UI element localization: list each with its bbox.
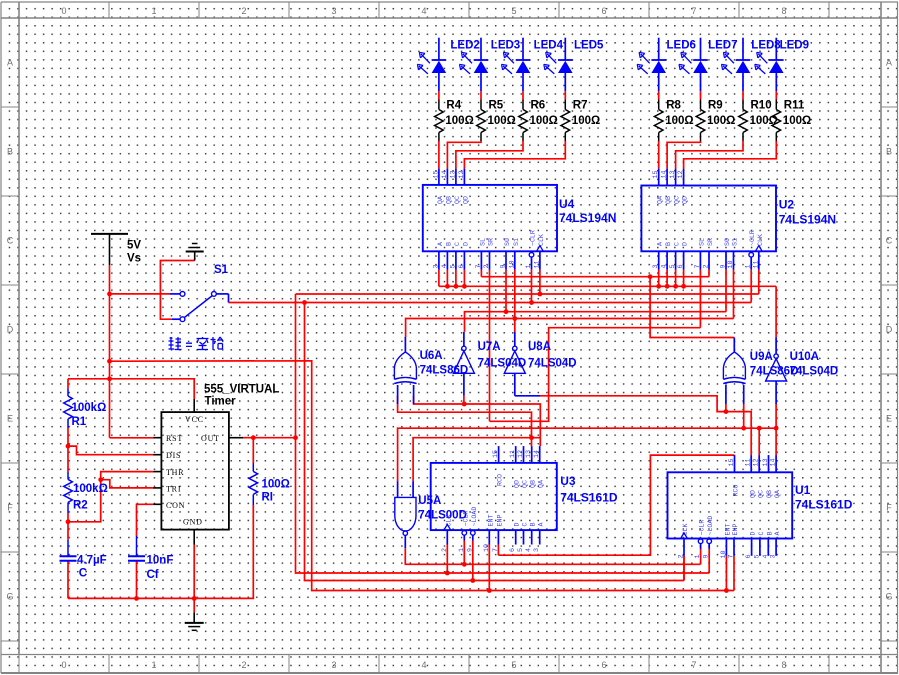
- svg-text:3: 3: [533, 548, 541, 552]
- svg-text:0: 0: [61, 660, 66, 670]
- svg-text:8: 8: [781, 660, 786, 670]
- svg-text:F: F: [7, 503, 13, 513]
- svg-text:E: E: [886, 414, 892, 424]
- svg-text:7: 7: [691, 660, 696, 670]
- svg-text:3: 3: [331, 6, 336, 16]
- svg-text:S1: S1: [214, 264, 229, 276]
- svg-text:LED2: LED2: [450, 40, 479, 52]
- svg-text:4: 4: [421, 660, 426, 670]
- svg-text:14: 14: [533, 450, 541, 458]
- svg-text:1: 1: [151, 660, 156, 670]
- svg-text:QA: QA: [657, 195, 665, 204]
- svg-text:R11: R11: [784, 100, 805, 112]
- svg-text:14: 14: [770, 458, 778, 466]
- svg-text:5: 5: [517, 548, 525, 552]
- svg-text:D: D: [750, 531, 758, 535]
- svg-text:S1: S1: [513, 238, 521, 246]
- svg-text:U7A: U7A: [478, 341, 501, 353]
- svg-text:74LS86D: 74LS86D: [420, 365, 469, 377]
- svg-text:RI: RI: [262, 492, 274, 504]
- svg-text:100Ω: 100Ω: [572, 115, 600, 127]
- svg-text:9: 9: [703, 554, 711, 558]
- svg-text:9: 9: [500, 264, 508, 268]
- svg-text:QB: QB: [530, 480, 538, 488]
- svg-text:U9A: U9A: [750, 351, 773, 363]
- svg-text:11: 11: [533, 260, 541, 268]
- svg-text:DIS: DIS: [166, 451, 181, 460]
- svg-text:C: C: [79, 568, 87, 580]
- svg-text:QD: QD: [462, 196, 470, 204]
- svg-text:74LS194N: 74LS194N: [559, 211, 616, 225]
- svg-text:QC: QC: [757, 490, 765, 498]
- svg-text:QD: QD: [682, 196, 690, 204]
- svg-text:ENT: ENT: [487, 514, 495, 526]
- svg-text:11: 11: [745, 458, 753, 466]
- svg-text:R7: R7: [573, 100, 588, 112]
- svg-text:3: 3: [432, 264, 440, 268]
- svg-text:U5A: U5A: [418, 495, 441, 507]
- svg-text:5: 5: [669, 264, 677, 268]
- svg-text:8: 8: [781, 6, 786, 16]
- svg-text:B: B: [530, 522, 538, 526]
- svg-text:2: 2: [241, 6, 246, 16]
- svg-text:4: 4: [441, 264, 449, 268]
- svg-text:12: 12: [753, 458, 761, 466]
- svg-text:11: 11: [509, 450, 517, 458]
- svg-text:Cf: Cf: [147, 569, 159, 581]
- svg-text:OUT: OUT: [201, 434, 220, 443]
- svg-text:9: 9: [466, 548, 474, 552]
- svg-text:R10: R10: [751, 100, 772, 112]
- svg-text:10: 10: [727, 260, 735, 268]
- svg-text:5V: 5V: [127, 240, 141, 252]
- svg-text:U8A: U8A: [528, 341, 551, 353]
- svg-text:6: 6: [601, 6, 606, 16]
- svg-text:=: =: [186, 338, 193, 352]
- svg-text:100kΩ: 100kΩ: [72, 402, 107, 414]
- svg-text:ENP: ENP: [496, 514, 504, 526]
- svg-text:74LS04D: 74LS04D: [478, 358, 527, 370]
- svg-text:~CLR: ~CLR: [462, 511, 469, 527]
- svg-text:~CLR: ~CLR: [530, 230, 537, 246]
- svg-text:LED8: LED8: [751, 40, 781, 52]
- svg-text:12: 12: [677, 170, 685, 178]
- svg-text:CON: CON: [166, 501, 185, 510]
- svg-text:D: D: [886, 325, 893, 335]
- svg-text:1: 1: [525, 264, 533, 268]
- svg-text:14: 14: [661, 170, 669, 178]
- svg-text:2: 2: [241, 660, 246, 670]
- svg-text:B: B: [665, 242, 673, 246]
- svg-text:2: 2: [678, 554, 686, 558]
- svg-text:LED9: LED9: [780, 40, 809, 52]
- svg-text:~CLR: ~CLR: [749, 230, 756, 246]
- svg-text:74LS04D: 74LS04D: [528, 358, 577, 370]
- svg-text:3: 3: [652, 264, 660, 268]
- svg-text:QC: QC: [522, 480, 530, 488]
- svg-text:5: 5: [449, 264, 457, 268]
- svg-text:13: 13: [669, 170, 677, 178]
- svg-text:U2: U2: [779, 198, 795, 212]
- svg-text:74LS161D: 74LS161D: [795, 498, 853, 512]
- svg-text:C: C: [522, 522, 530, 526]
- svg-text:0: 0: [61, 6, 66, 16]
- svg-text:C: C: [454, 242, 462, 246]
- svg-text:15: 15: [492, 450, 500, 458]
- svg-text:B: B: [7, 147, 13, 157]
- svg-text:100Ω: 100Ω: [707, 115, 735, 127]
- svg-text:1: 1: [458, 548, 466, 552]
- svg-text:C: C: [758, 531, 766, 535]
- svg-text:CLK: CLK: [538, 234, 545, 246]
- svg-text:SR: SR: [707, 238, 715, 246]
- svg-text:CLK: CLK: [445, 514, 453, 526]
- svg-text:2: 2: [703, 264, 711, 268]
- svg-text:74LS194N: 74LS194N: [779, 213, 836, 227]
- svg-text:100Ω: 100Ω: [530, 115, 558, 127]
- svg-text:Timer: Timer: [205, 396, 237, 408]
- svg-text:U3: U3: [560, 474, 576, 488]
- svg-text:100Ω: 100Ω: [783, 115, 811, 127]
- svg-text:100Ω: 100Ω: [445, 115, 473, 127]
- svg-text:SL: SL: [479, 238, 487, 246]
- svg-text:5: 5: [511, 6, 516, 16]
- svg-text:3: 3: [331, 660, 336, 670]
- svg-text:5: 5: [511, 660, 516, 670]
- svg-text:U6A: U6A: [420, 350, 443, 362]
- svg-text:LED3: LED3: [491, 40, 520, 52]
- svg-text:1: 1: [151, 6, 156, 16]
- svg-text:74LS161D: 74LS161D: [560, 491, 618, 505]
- svg-text:14: 14: [441, 170, 449, 178]
- svg-text:QB: QB: [766, 490, 774, 498]
- svg-text:VCC: VCC: [185, 415, 204, 424]
- svg-text:5: 5: [753, 554, 761, 558]
- svg-text:F: F: [886, 503, 892, 513]
- svg-text:11: 11: [752, 260, 760, 268]
- svg-text:G: G: [6, 592, 13, 602]
- svg-text:U10A: U10A: [790, 351, 819, 363]
- svg-text:S1: S1: [732, 238, 740, 246]
- svg-text:10: 10: [508, 260, 516, 268]
- svg-text:6: 6: [601, 660, 606, 670]
- svg-text:U1: U1: [795, 483, 811, 497]
- svg-text:ENP: ENP: [732, 523, 740, 535]
- svg-text:74LS04D: 74LS04D: [790, 366, 839, 378]
- svg-text:TRI: TRI: [166, 485, 181, 494]
- svg-text:13: 13: [449, 170, 457, 178]
- svg-text:100Ω: 100Ω: [488, 115, 516, 127]
- svg-text:4: 4: [525, 548, 533, 552]
- svg-text:QA: QA: [774, 489, 782, 498]
- svg-text:QA: QA: [538, 479, 546, 488]
- svg-text:Vs: Vs: [127, 253, 141, 265]
- svg-text:4: 4: [421, 6, 426, 16]
- svg-text:12: 12: [517, 450, 525, 458]
- svg-text:CLK: CLK: [682, 523, 690, 535]
- svg-text:R2: R2: [73, 500, 88, 512]
- svg-text:B: B: [886, 147, 892, 157]
- svg-text:6: 6: [458, 264, 466, 268]
- svg-text:100Ω: 100Ω: [750, 115, 778, 127]
- svg-text:4: 4: [661, 264, 669, 268]
- svg-text:R5: R5: [489, 100, 504, 112]
- svg-text:QC: QC: [674, 196, 682, 204]
- svg-text:R6: R6: [531, 100, 546, 112]
- svg-text:C: C: [886, 236, 893, 246]
- svg-text:LED6: LED6: [667, 40, 696, 52]
- svg-text:10: 10: [483, 544, 491, 552]
- svg-text:QD: QD: [750, 490, 758, 498]
- svg-text:D: D: [7, 325, 14, 335]
- svg-text:E: E: [7, 414, 13, 424]
- svg-text:QB: QB: [665, 196, 673, 204]
- svg-text:~LOAD: ~LOAD: [471, 507, 478, 527]
- svg-text:LED4: LED4: [534, 40, 564, 52]
- svg-text:RCO: RCO: [497, 474, 505, 486]
- svg-text:~LOAD: ~LOAD: [707, 516, 714, 536]
- svg-text:G: G: [885, 592, 892, 602]
- svg-text:555_VIRTUAL: 555_VIRTUAL: [204, 384, 279, 396]
- svg-text:LED5: LED5: [574, 40, 604, 52]
- svg-text:B: B: [766, 531, 774, 535]
- svg-text:QC: QC: [454, 196, 462, 204]
- svg-text:7: 7: [694, 264, 702, 268]
- svg-text:~CLR: ~CLR: [699, 520, 706, 536]
- svg-text:A: A: [886, 58, 892, 68]
- svg-text:13: 13: [525, 450, 533, 458]
- svg-text:SL: SL: [698, 238, 706, 246]
- svg-text:QA: QA: [437, 195, 445, 204]
- svg-text:6: 6: [745, 554, 753, 558]
- svg-text:15: 15: [652, 170, 660, 178]
- svg-text:7: 7: [691, 6, 696, 16]
- svg-text:QB: QB: [445, 196, 453, 204]
- svg-text:7: 7: [728, 554, 736, 558]
- svg-text:A: A: [7, 58, 13, 68]
- svg-text:7: 7: [475, 264, 483, 268]
- svg-text:100kΩ: 100kΩ: [73, 483, 108, 495]
- svg-text:D: D: [682, 242, 690, 246]
- svg-text:100Ω: 100Ω: [262, 479, 290, 491]
- svg-text:C: C: [674, 242, 682, 246]
- svg-text:RCO: RCO: [733, 484, 741, 496]
- svg-text:74LS00D: 74LS00D: [418, 510, 467, 522]
- svg-text:R9: R9: [708, 100, 723, 112]
- svg-text:4: 4: [762, 554, 770, 558]
- svg-text:R4: R4: [446, 100, 461, 112]
- svg-text:U4: U4: [559, 197, 575, 211]
- svg-text:7: 7: [492, 548, 500, 552]
- svg-text:S0: S0: [504, 238, 512, 246]
- svg-text:QD: QD: [514, 480, 522, 488]
- svg-text:4.7µF: 4.7µF: [77, 555, 107, 567]
- svg-text:B: B: [445, 242, 453, 246]
- svg-text:R1: R1: [72, 416, 87, 428]
- svg-text:THR: THR: [166, 468, 184, 477]
- svg-text:3: 3: [770, 554, 778, 558]
- svg-text:15: 15: [728, 458, 736, 466]
- svg-text:12: 12: [458, 170, 466, 178]
- svg-text:D: D: [462, 242, 470, 246]
- svg-text:RST: RST: [166, 434, 183, 443]
- svg-text:D: D: [514, 522, 522, 526]
- svg-text:SR: SR: [488, 238, 496, 246]
- svg-text:2: 2: [441, 548, 449, 552]
- svg-text:CLK: CLK: [757, 234, 764, 246]
- svg-text:LED7: LED7: [708, 40, 737, 52]
- svg-text:10nF: 10nF: [147, 555, 174, 567]
- svg-text:1: 1: [694, 554, 702, 558]
- svg-text:2: 2: [483, 264, 491, 268]
- svg-text:6: 6: [509, 548, 517, 552]
- svg-text:6: 6: [677, 264, 685, 268]
- svg-text:C: C: [7, 236, 14, 246]
- svg-text:GND: GND: [183, 518, 203, 527]
- svg-text:100Ω: 100Ω: [665, 115, 693, 127]
- svg-text:15: 15: [432, 170, 440, 178]
- svg-text:R8: R8: [666, 100, 681, 112]
